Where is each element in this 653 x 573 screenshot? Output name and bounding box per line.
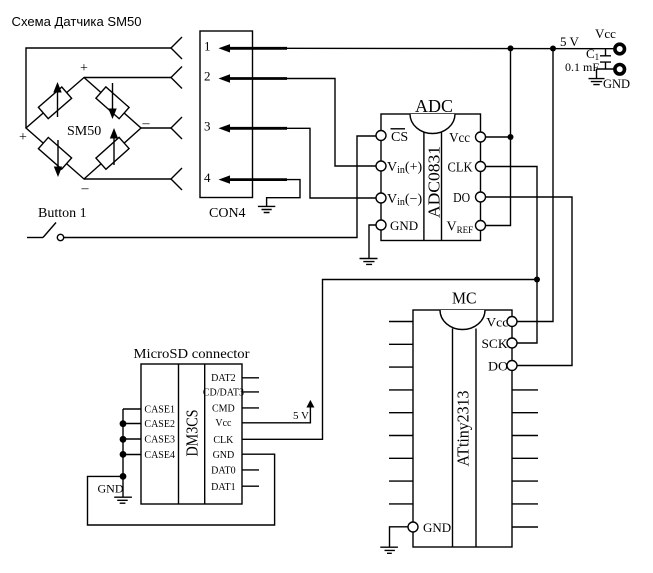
svg-text:GND: GND <box>423 520 451 535</box>
svg-text:DAT0: DAT0 <box>211 466 235 477</box>
svg-text:SM50: SM50 <box>67 124 101 139</box>
ground below CON4 <box>258 206 275 212</box>
svg-text:Vcc: Vcc <box>215 418 232 429</box>
stub CMD <box>242 407 259 409</box>
strain gauge R-bottom-right <box>96 137 129 169</box>
svg-text:MicroSD connector: MicroSD connector <box>134 347 250 362</box>
svg-text:+: + <box>80 61 88 76</box>
svg-text:ADC0831: ADC0831 <box>425 146 444 218</box>
MC inner line left <box>452 329 454 548</box>
wire microSD Vcc to 5V arrow <box>242 407 310 423</box>
wire microSD GND loop <box>88 454 275 525</box>
MC left stub 5 <box>389 412 413 414</box>
MicroSD inner line right <box>204 364 206 504</box>
svg-text:CS: CS <box>391 130 408 145</box>
MC left stub 4 <box>389 389 413 391</box>
junction dot ADC Vcc <box>508 134 514 140</box>
connector plug 2 <box>171 67 182 89</box>
stub CASE4 <box>123 454 141 456</box>
ground bars top right <box>589 79 605 85</box>
ADC pin VREF circle <box>476 221 486 231</box>
wire pin4 to ground <box>267 180 300 206</box>
connector plug 3 <box>171 117 182 139</box>
capacitor C1 top stem <box>605 49 607 56</box>
wire pin3 to ADC Vin- <box>287 128 376 198</box>
MicroSD connector box <box>141 364 242 504</box>
arrow down through top-right gauge <box>108 83 116 119</box>
svg-text:GND: GND <box>213 450 235 461</box>
ground bars microSD <box>114 497 132 503</box>
stub CASE1 <box>123 408 141 410</box>
svg-text:Button 1: Button 1 <box>38 206 87 221</box>
junction dot rail/MC-Vcc <box>550 46 556 52</box>
MC right stub 3 <box>512 435 538 437</box>
svg-text:5 V: 5 V <box>560 34 580 49</box>
stub CASE2 <box>123 423 141 425</box>
svg-text:3: 3 <box>204 119 211 134</box>
switch contact circle <box>57 234 63 240</box>
svg-text:+: + <box>19 130 27 145</box>
5V arrow head <box>306 400 314 408</box>
MC pin DO circle <box>507 361 517 371</box>
svg-text:0.1 mF: 0.1 mF <box>565 60 599 74</box>
MC box <box>413 310 512 547</box>
MC left stub 8 <box>389 480 413 482</box>
svg-text:5 V: 5 V <box>293 410 309 422</box>
CASE bus vertical <box>122 409 124 497</box>
svg-text:Vcc: Vcc <box>595 26 616 41</box>
wire pin2 to ADC Vin+ <box>287 79 376 167</box>
MicroSD inner line left <box>178 364 180 504</box>
strain gauge R-top-right <box>96 87 129 119</box>
junction dot CLK net / microSD CLK <box>534 277 540 283</box>
wire top node to connector row2 <box>84 77 171 79</box>
svg-text:DAT1: DAT1 <box>211 482 235 493</box>
MC right stub 1 <box>512 389 538 391</box>
switch Button1 left stub <box>27 237 43 239</box>
svg-text:2: 2 <box>204 69 211 84</box>
MC right stub 2 <box>512 412 538 414</box>
svg-text:CASE1: CASE1 <box>144 405 175 416</box>
MC pin SCK circle <box>507 338 517 348</box>
svg-text:–: – <box>81 181 90 196</box>
arrow down through bottom-left gauge <box>54 140 62 177</box>
MC left stub 9 <box>389 503 413 505</box>
svg-text:DO: DO <box>488 359 508 374</box>
svg-text:Vin(−): Vin(−) <box>387 192 422 208</box>
MC left stub 6 <box>389 435 413 437</box>
thick arrow into pin 2 <box>219 74 288 82</box>
MC pin Vcc circle <box>507 317 517 327</box>
svg-text:CASE4: CASE4 <box>144 450 175 461</box>
ADC pin DO circle <box>476 192 486 202</box>
stub CD/DAT3 <box>242 391 259 393</box>
junction dot CASE3 <box>120 436 127 443</box>
sensor bridge SM50 diamond wires <box>26 78 141 180</box>
stub DAT1 <box>242 485 259 487</box>
wire ADC DO down to MC DO <box>486 197 572 366</box>
svg-text:CLK: CLK <box>448 161 473 176</box>
svg-text:GND: GND <box>98 482 124 496</box>
ADC box <box>381 114 481 241</box>
connector CON4 box <box>200 31 253 198</box>
ground stem top right <box>596 69 598 78</box>
ground below ADC GND <box>360 259 378 265</box>
ADC GND pin to ground wire <box>369 225 376 258</box>
svg-text:Схема Датчика SM50: Схема Датчика SM50 <box>12 14 142 29</box>
MC right stub 6 <box>512 503 538 505</box>
junction dot rail/ADC-Vcc <box>508 45 514 51</box>
svg-text:GND: GND <box>390 218 418 233</box>
5V power rail from CON4 pin1 to Vcc terminal <box>287 47 613 49</box>
wire ADC Vcc to rail <box>486 49 511 138</box>
wire MC GND to ground <box>390 527 409 547</box>
svg-text:4: 4 <box>204 170 211 185</box>
wire MC Vcc up to rail <box>517 49 553 322</box>
thick arrow into pin 3 <box>219 124 288 132</box>
strain gauge R-top-left <box>38 87 71 119</box>
svg-text:Vcc: Vcc <box>486 315 508 330</box>
svg-text:CON4: CON4 <box>209 206 246 221</box>
MC left stub 1 <box>389 321 413 323</box>
svg-text:CMD: CMD <box>212 404 235 415</box>
wire ADC CLK down to MC SCK <box>486 167 537 344</box>
terminal ring GND <box>615 65 625 75</box>
connector plug 4 <box>171 168 182 190</box>
ADC inner line left <box>423 133 425 241</box>
wire right node to connector row3 <box>141 127 171 129</box>
wire bottom node to connector row4 <box>84 178 171 180</box>
svg-text:1: 1 <box>204 39 211 54</box>
stub CASE3 <box>123 438 141 440</box>
MC left stub 2 <box>389 343 413 345</box>
MC pin GND circle <box>408 522 418 532</box>
ADC pin CS circle <box>376 131 386 141</box>
thick arrow into pin 4 <box>219 175 288 183</box>
strain gauge R-bottom-left <box>38 137 71 169</box>
stub DAT0 <box>242 469 259 471</box>
ADC pin Vcc circle <box>476 132 486 142</box>
ADC notch semicircle <box>410 114 455 134</box>
MC right stub 7 <box>512 526 538 528</box>
svg-text:ADC: ADC <box>415 96 453 116</box>
junction dot CASE2 <box>120 420 127 427</box>
ground below MC <box>380 547 398 553</box>
MC right stub 4 <box>512 457 538 459</box>
wire cap to GND terminal <box>597 68 614 70</box>
ADC pin Vin+ circle <box>376 161 386 171</box>
switch lever <box>43 223 56 238</box>
svg-text:MC: MC <box>452 289 477 308</box>
MC inner line right <box>475 329 477 548</box>
svg-text:CASE2: CASE2 <box>144 419 175 430</box>
MC right stub 5 <box>512 480 538 482</box>
svg-text:SCK: SCK <box>482 336 509 351</box>
svg-text:GND: GND <box>603 77 630 91</box>
svg-text:Vcc: Vcc <box>449 131 470 146</box>
capacitor C1 bottom stem <box>605 62 607 69</box>
svg-text:DAT2: DAT2 <box>211 373 235 384</box>
wire microSD CLK to SCK net <box>242 280 537 440</box>
svg-text:Vin(+): Vin(+) <box>387 160 422 176</box>
connector plug 1 <box>171 37 182 59</box>
MC left stub 3 <box>389 366 413 368</box>
svg-text:CLK: CLK <box>213 435 234 446</box>
junction dot CASE4 <box>120 451 127 458</box>
svg-text:–: – <box>142 116 151 131</box>
svg-text:CD/DAT3: CD/DAT3 <box>203 388 244 399</box>
wire left node up and to connector row1 <box>26 48 171 128</box>
ADC pin GND circle <box>376 220 386 230</box>
wire switch to ADC CS <box>64 136 376 238</box>
arrow up through top-left gauge <box>53 82 61 117</box>
stub DAT2 <box>242 377 259 379</box>
capacitor C1 plates <box>600 56 611 62</box>
MC notch semicircle <box>440 310 485 330</box>
svg-text:DO: DO <box>453 191 470 206</box>
arrow up through bottom-right gauge <box>110 128 118 165</box>
ADC inner line right <box>441 133 443 241</box>
junction dot GND loop <box>120 473 127 480</box>
MC left stub 7 <box>389 457 413 459</box>
wire ADC VREF to Vcc net <box>486 137 511 226</box>
thick arrow into pin 1 <box>219 44 288 52</box>
svg-text:DM3CS: DM3CS <box>183 410 202 457</box>
svg-text:ATtiny2313: ATtiny2313 <box>454 391 473 467</box>
ADC pin Vin- circle <box>376 193 386 203</box>
terminal ring Vcc <box>615 44 625 54</box>
svg-text:CASE3: CASE3 <box>144 435 175 446</box>
ADC pin CLK circle <box>476 162 486 172</box>
